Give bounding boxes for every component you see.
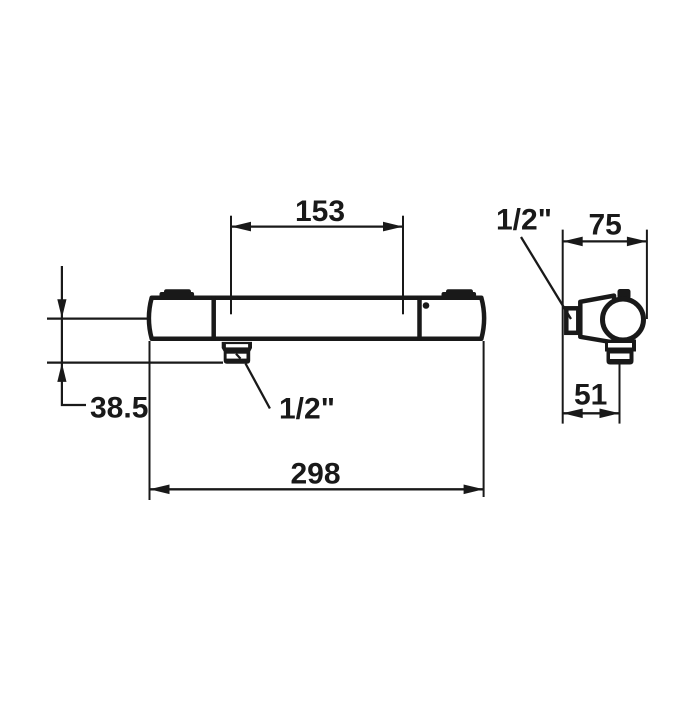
- mixer bar body outline: [149, 298, 484, 339]
- outlet label 1/2 inch (front): [279, 393, 335, 426]
- indicator dot: [423, 302, 430, 309]
- svg-text:75: 75: [589, 209, 622, 242]
- right end-cap divider: [417, 296, 422, 341]
- dimension 153 right extension line: [402, 216, 404, 315]
- knob top tab (side view): [618, 289, 631, 299]
- dimension 51 outlet extension line: [619, 365, 621, 424]
- svg-text:153: 153: [295, 195, 345, 228]
- svg-text:38.5: 38.5: [90, 392, 148, 425]
- dimension 75 line and arrows: [563, 237, 647, 247]
- dimension 38.5 line with leader: [57, 266, 86, 405]
- dimension 51 line and arrows: [563, 409, 620, 419]
- label 38.5: [90, 392, 148, 425]
- valve body (side view): [580, 296, 616, 343]
- svg-text:1/2": 1/2": [279, 393, 335, 426]
- svg-text:298: 298: [290, 458, 340, 491]
- svg-text:1/2": 1/2": [496, 203, 552, 236]
- centre axis extension line: [47, 318, 150, 320]
- dimension 75 right extension line: [646, 230, 648, 319]
- dimension 153 line and arrows: [231, 222, 403, 232]
- right cap top tab: [442, 289, 477, 298]
- label 298: [290, 458, 340, 491]
- left end-cap divider: [211, 296, 216, 341]
- inlet label 1/2 inch (side): [496, 203, 552, 236]
- label 51: [574, 378, 607, 411]
- outlet-bottom extension line: [47, 362, 223, 364]
- control knob circle (side view): [603, 299, 644, 340]
- bottom outlet fitting (front view): [222, 342, 252, 364]
- outlet label 1/2 inch (front) leader: [246, 364, 270, 409]
- bottom outlet fitting (side view): [605, 340, 636, 365]
- svg-text:51: 51: [574, 378, 607, 411]
- inlet label 1/2 inch (side) leader: [521, 237, 571, 319]
- wall inlet fitting (side view): [566, 308, 578, 333]
- left cap top tab: [160, 289, 195, 298]
- dimension 75 left extension line: [562, 230, 564, 424]
- dimension 298 line and arrows: [150, 485, 484, 495]
- label 153: [295, 195, 345, 228]
- dimension 298 right extension line: [483, 341, 485, 497]
- dimension 153 left extension line: [230, 216, 232, 315]
- dimension 298 left extension line: [149, 341, 151, 500]
- label 75: [589, 209, 622, 242]
